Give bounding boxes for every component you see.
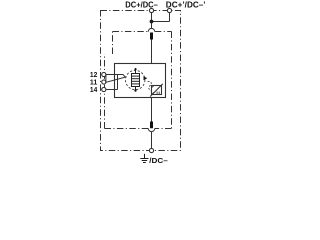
terminal 14 (FM) [102, 87, 106, 91]
varistor diagonal strike [150, 84, 163, 97]
varistor interior detail marks [152, 86, 159, 95]
plug contact arc (top, wire crosses module frame) [148, 28, 155, 31]
wire: left DC terminal down to plug contact [151, 13, 153, 29]
changeover contact pennant (FM switch actuator) [106, 75, 126, 83]
switching element stack U1 [132, 74, 140, 87]
svg-text:/DC–: /DC– [149, 156, 168, 164]
stack top actuation arrowhead [134, 69, 137, 72]
stack bottom lead [135, 87, 137, 92]
inner protection-module frame (dash-dot) [105, 32, 172, 129]
svg-text:DC+/DC–: DC+/DC– [125, 0, 158, 9]
SCI switching device enclosure (dashed circle) [126, 70, 145, 89]
actuation arrow (disconnector to varistor) [144, 76, 148, 80]
terminal DC+'/DC-' [167, 8, 171, 12]
module box (SPD unit) [115, 64, 166, 98]
junction node [150, 20, 154, 24]
wire: module box bottom down to plug pin [151, 98, 153, 122]
plug contact pin (top, thick bar) [150, 33, 153, 40]
wire: horizontal link right terminal to left wire [152, 21, 170, 23]
terminal 12 (FM) [102, 72, 106, 76]
terminal earth/DC- [149, 148, 153, 152]
ground symbol [140, 154, 148, 163]
svg-text:DC+’/DC–’: DC+’/DC–’ [166, 0, 206, 9]
plug contact pin (bottom, thick bar) [150, 122, 153, 129]
outer device frame (dash-dot enclosure) [101, 11, 181, 151]
changeover contact bar (FM switch) [117, 75, 119, 90]
wire: right DC terminal down [169, 13, 171, 22]
stack top lead [135, 68, 137, 74]
wire: pin to module box [151, 40, 153, 64]
wire: bottom arc to earth terminal [151, 132, 153, 149]
wire: terminal 12 into box [106, 74, 123, 76]
varistor RV1 [152, 86, 162, 95]
stack bottom actuation arrowhead [134, 88, 137, 91]
svg-text:14: 14 [90, 85, 97, 94]
wire: terminal 14 to contact bar [106, 89, 118, 91]
terminal 11 (FM) [102, 80, 106, 84]
mechanical link (dashed) [148, 82, 152, 91]
terminal DC+/DC- [149, 8, 153, 12]
plug contact arc (bottom, wire crosses module frame) [148, 128, 155, 131]
